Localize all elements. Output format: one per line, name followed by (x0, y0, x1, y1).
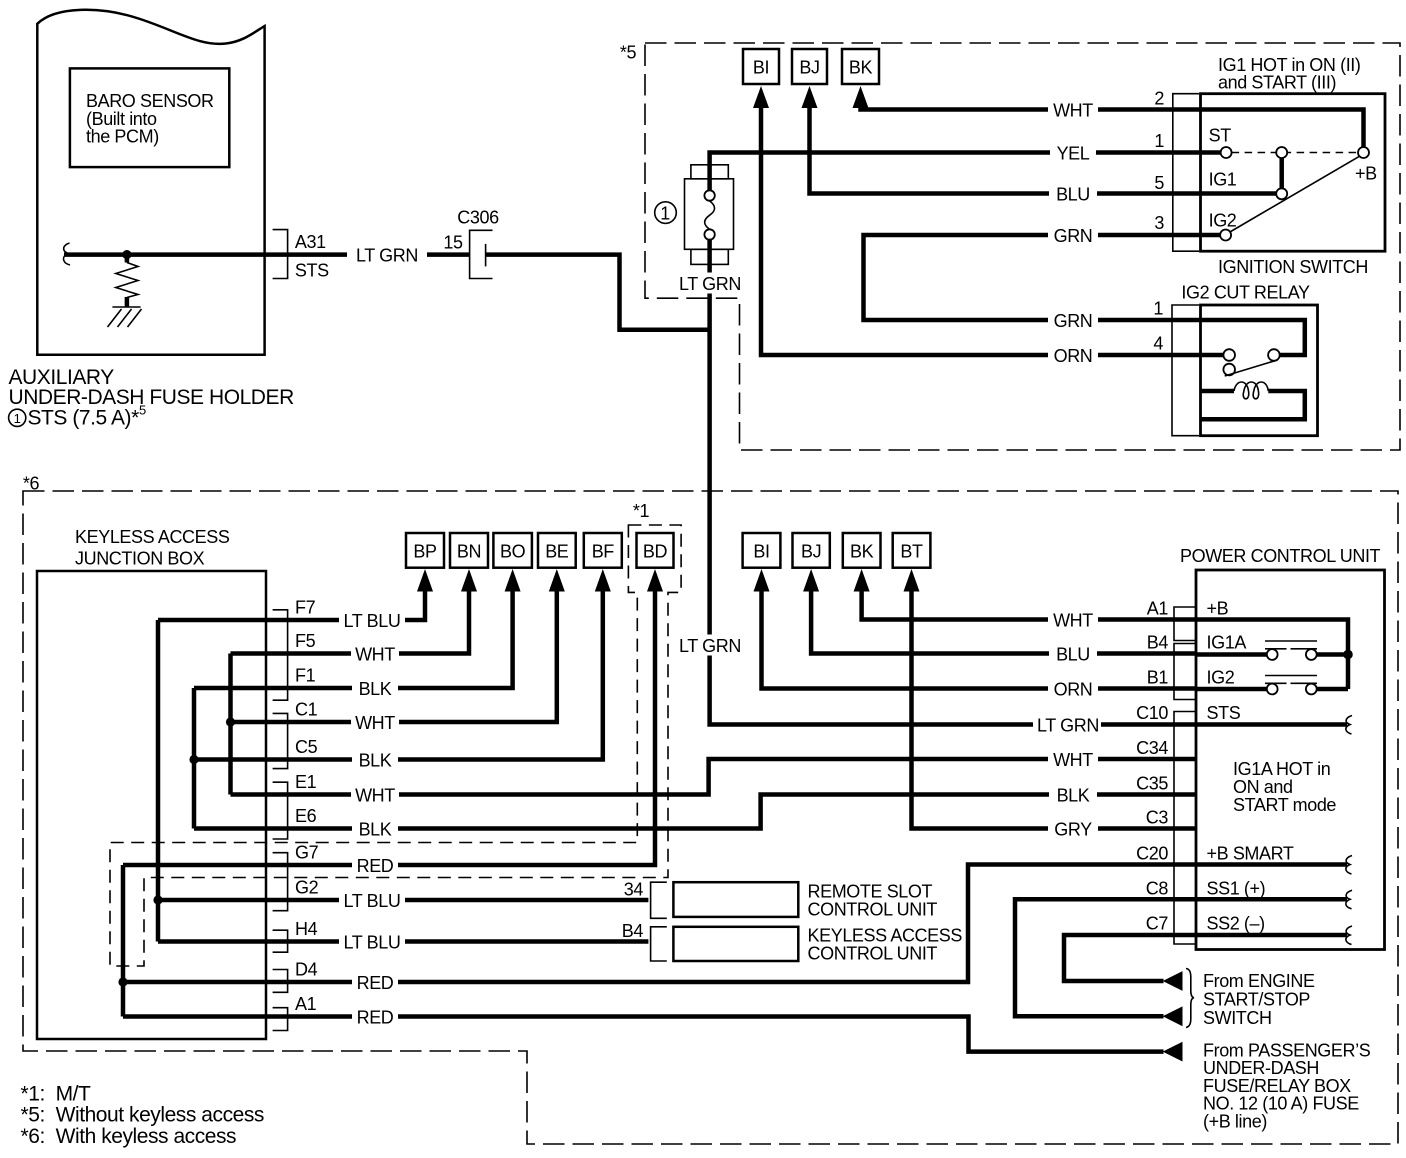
connector bracket PCU group B (1174, 644, 1196, 700)
svg-text:*5: Without keyless access: *5: Without keyless access (21, 1103, 264, 1126)
wire ORN: BI to PCU B1 (762, 592, 1197, 689)
wire LT GRN: fuse bottom down to C10 STS row (710, 240, 1196, 725)
arrow into BP (417, 569, 433, 592)
svg-text:BK: BK (849, 58, 873, 78)
connector C306 (pin 15) (470, 230, 493, 278)
wire A1 RED from passenger's fuse box (123, 1017, 1164, 1052)
svg-text:C34: C34 (1136, 738, 1168, 758)
svg-text:BK: BK (850, 542, 874, 562)
wire H4 LT BLU to keyless access control unit pin B4 (158, 939, 648, 944)
svg-text:KEYLESS ACCESS: KEYLESS ACCESS (808, 926, 963, 946)
connector box BF (584, 533, 622, 568)
svg-text:GRN: GRN (1054, 226, 1093, 246)
svg-text:WHT: WHT (1053, 750, 1093, 770)
wire: LT GRN from C306 down and right to fuse net (486, 255, 710, 330)
title IG1 HOT in ON (II) and START (III) (1218, 55, 1361, 93)
connector bracket at ignition switch (1173, 94, 1199, 252)
svg-text:*6: *6 (23, 474, 40, 494)
BARO SENSOR box U1 (70, 68, 229, 167)
svg-text:ST: ST (1209, 126, 1232, 146)
svg-text:H4: H4 (295, 919, 318, 939)
caption AUXILIARY UNDER-DASH FUSE HOLDER (9, 366, 295, 430)
svg-text:C306: C306 (457, 208, 499, 228)
svg-text:and START (III): and START (III) (1218, 73, 1336, 93)
connector box BD (637, 533, 674, 568)
KEYLESS ACCESS JUNCTION BOX (37, 571, 266, 1039)
svg-text:CONTROL UNIT: CONTROL UNIT (808, 944, 938, 964)
svg-text:LT BLU: LT BLU (344, 611, 401, 631)
connector box BO (493, 533, 532, 568)
connector bracket at IG2 cut relay (1172, 305, 1199, 436)
svg-text:SS2 (–): SS2 (–) (1207, 914, 1265, 934)
svg-text:*5: *5 (620, 43, 637, 63)
connector box BK (lower) (843, 533, 881, 568)
svg-text:+B: +B (1207, 599, 1229, 619)
svg-text:34: 34 (624, 880, 644, 900)
contact IG1 (1276, 188, 1287, 199)
ground (112, 306, 140, 308)
svg-text:BP: BP (413, 542, 437, 562)
arrow into BJ (802, 86, 818, 108)
circled-1 fuse index in caption (9, 409, 26, 426)
connector bracket PCU group A (1174, 607, 1196, 641)
connector bracket remote slot control unit (651, 882, 667, 918)
svg-text:IG1A: IG1A (1207, 633, 1247, 653)
svg-text:BLU: BLU (1056, 185, 1090, 205)
svg-text:WHT: WHT (355, 645, 395, 665)
break curl +B SMART (1346, 856, 1352, 875)
wire IG2 row inside PCU (1196, 687, 1348, 692)
wire C5 BLK to BF (194, 592, 603, 760)
node dot G2 (153, 895, 162, 904)
arrow into BI (753, 86, 769, 108)
arrow into BE (549, 569, 565, 592)
relay contact circles (1268, 349, 1280, 361)
svg-text:the PCM): the PCM) (86, 127, 159, 147)
pin bracket C1/C5 (273, 713, 288, 768)
svg-text:C8: C8 (1146, 879, 1169, 899)
break curl SS2 (1346, 926, 1352, 945)
wire SS2 inside PCU (1196, 933, 1347, 938)
svg-text:BJ: BJ (801, 542, 821, 562)
node: junction dot on sensor wire (122, 250, 131, 259)
IG1A contact bars (1265, 641, 1317, 649)
svg-text:BN: BN (457, 542, 481, 562)
wire SS1 inside PCU (1196, 897, 1347, 902)
svg-text:C35: C35 (1136, 774, 1168, 794)
svg-text:BT: BT (900, 542, 923, 562)
arrow into BF (595, 569, 611, 592)
svg-text:STS (7.5 A)*: STS (7.5 A)* (28, 407, 140, 430)
IG2 cut relay box K1 (1201, 305, 1318, 436)
pin name labels (295, 598, 319, 1015)
svg-text:BLK: BLK (359, 820, 392, 840)
wire F1 BLK to BO (194, 592, 513, 689)
dashed condition outline *1 around BD wire (110, 525, 681, 966)
svg-text:BJ: BJ (799, 58, 819, 78)
resistor (pull-down inside PCM) (125, 255, 130, 263)
svg-text:BLU: BLU (1056, 645, 1090, 665)
wire D4 RED to PCU C20 (+B SMART) (123, 865, 1196, 983)
connector box BN (450, 533, 488, 568)
connector box BI (upper) (743, 49, 779, 84)
svg-text:IG2: IG2 (1207, 668, 1235, 688)
PCU pin labels (1136, 599, 1168, 934)
IG2 contact bars (1265, 676, 1317, 684)
svg-text:CONTROL UNIT: CONTROL UNIT (808, 900, 938, 920)
wire SS2: PCU C7 to engine start/stop switch (1064, 935, 1196, 981)
pin bracket D4 (273, 970, 288, 993)
svg-text:G7: G7 (295, 843, 319, 863)
svg-text:REMOTE SLOT: REMOTE SLOT (808, 882, 933, 902)
fuse STS 7.5A (symbol) (691, 165, 728, 179)
svg-text:LT GRN: LT GRN (1037, 716, 1099, 736)
arrow into BT (904, 569, 920, 592)
svg-text:BLK: BLK (359, 679, 392, 699)
svg-text:+B: +B (1355, 164, 1377, 184)
pin bracket E1/E6 (273, 782, 288, 839)
svg-text:C5: C5 (295, 737, 318, 757)
wire BLU: BJ to PCU B4 (811, 592, 1196, 654)
svg-text:G2: G2 (295, 878, 319, 898)
svg-text:F5: F5 (295, 631, 316, 651)
svg-text:B4: B4 (622, 921, 644, 941)
node dot C5 (189, 755, 198, 764)
svg-text:BD: BD (643, 542, 668, 562)
arrow into BO (505, 569, 521, 592)
wire IG1A row inside PCU (1196, 652, 1348, 657)
contact ST (1221, 147, 1232, 158)
wire ORN: BI to relay pin 4 (761, 106, 1223, 355)
wire +B inside PCU (1196, 620, 1348, 690)
svg-text:START/STOP: START/STOP (1203, 990, 1310, 1010)
ignition switch box (1201, 94, 1386, 252)
svg-text:STS: STS (1207, 703, 1241, 723)
wire E6 BLK to PCU C35 (194, 795, 1196, 829)
svg-text:C20: C20 (1136, 844, 1168, 864)
KEYLESS ACCESS CONTROL UNIT box (673, 927, 798, 961)
bus LT BLU (F7-G2-H4) (156, 620, 161, 942)
dashed condition box *5 (645, 43, 1400, 450)
dashed condition box *6 (23, 491, 1398, 1144)
pin bracket F7/F5/F1 (273, 610, 288, 700)
wire +B SMART inside PCU (1196, 862, 1347, 867)
svg-text:BI: BI (753, 58, 769, 78)
svg-text:BLK: BLK (359, 751, 392, 771)
svg-text:1: 1 (1154, 131, 1164, 151)
wire F7 LT BLU to BP (158, 592, 425, 621)
wire SS1: PCU C8 to engine start/stop switch (1015, 899, 1196, 1016)
svg-text:*6: With keyless access: *6: With keyless access (21, 1125, 237, 1148)
wire-break curl at left end (64, 243, 70, 265)
svg-text:BI: BI (753, 542, 769, 562)
wire G7 RED to BD (123, 592, 655, 866)
IG2 contact circles (1267, 684, 1278, 695)
svg-text:E6: E6 (295, 806, 317, 826)
svg-text:IG2 CUT RELAY: IG2 CUT RELAY (1181, 283, 1310, 303)
svg-text:WHT: WHT (1053, 101, 1093, 121)
wire GRY: BT to PCU C3 (912, 592, 1197, 829)
wire F5 WHT to BN (231, 592, 470, 654)
ignition switch internals (1232, 152, 1358, 154)
wire: LT GRN from A31 to C306 (288, 252, 470, 257)
IG1A contact circles (1267, 649, 1278, 660)
wire: BARO sensor output to pin A31 (64, 252, 288, 257)
svg-text:SWITCH: SWITCH (1203, 1008, 1272, 1028)
pin bracket G7/G2 (273, 853, 288, 911)
svg-text:WHT: WHT (1053, 611, 1093, 631)
svg-text:5: 5 (1154, 173, 1164, 193)
svg-text:YEL: YEL (1057, 144, 1090, 164)
svg-text:A1: A1 (295, 994, 317, 1014)
svg-text:D4: D4 (295, 960, 318, 980)
circled-1 fuse callout (655, 202, 677, 224)
svg-text:A1: A1 (1147, 599, 1169, 619)
contact mid (1276, 147, 1287, 158)
svg-text:LT BLU: LT BLU (344, 933, 401, 953)
svg-text:POWER CONTROL UNIT: POWER CONTROL UNIT (1180, 546, 1381, 566)
pin bracket A1 (273, 1008, 288, 1031)
svg-text:C3: C3 (1146, 808, 1169, 828)
svg-text:C7: C7 (1146, 914, 1169, 934)
svg-text:LT GRN: LT GRN (679, 274, 741, 294)
svg-text:GRN: GRN (1054, 311, 1093, 331)
connector box BI (lower) (743, 533, 781, 568)
connector box BT (893, 533, 931, 568)
wire STS inside PCU (1196, 722, 1347, 727)
wire WHT: BK to PCU A1 (862, 592, 1196, 620)
node dot D4 (118, 977, 127, 986)
svg-text:15: 15 (443, 233, 463, 253)
svg-text:ON and: ON and (1233, 777, 1293, 797)
connector pin A31 (STS) bracket (273, 230, 288, 279)
svg-text:SS1 (+): SS1 (+) (1207, 879, 1266, 899)
break curl STS (1346, 716, 1352, 735)
svg-text:B4: B4 (1147, 633, 1169, 653)
break curl SS1 (1346, 890, 1352, 909)
arrow from passenger's fuse box (+B line) (1163, 1042, 1183, 1062)
svg-text:GRY: GRY (1054, 820, 1092, 840)
svg-text:LT GRN: LT GRN (356, 246, 418, 266)
footnotes (21, 1083, 264, 1149)
wire WHT: BK to ignition switch pin 2 (861, 106, 1364, 147)
arrow into BK lower (854, 569, 870, 592)
relay coil (1201, 389, 1235, 394)
svg-text:BF: BF (592, 542, 615, 562)
svg-text:5: 5 (139, 403, 146, 418)
connector bracket keyless access control unit (651, 927, 667, 961)
wire C1 WHT to BE (231, 592, 557, 723)
PCU internal pin names (1207, 599, 1337, 934)
connector box BJ (upper) (792, 49, 827, 84)
svg-text:4: 4 (1153, 334, 1163, 354)
relay armature (1225, 360, 1278, 376)
svg-text:RED: RED (357, 856, 394, 876)
svg-text:BLK: BLK (1057, 786, 1090, 806)
svg-text:IG1A HOT in: IG1A HOT in (1233, 759, 1330, 779)
svg-text:BO: BO (500, 542, 526, 562)
svg-text:1: 1 (660, 204, 670, 224)
wire E1 WHT to PCU C34 (231, 759, 1197, 795)
svg-text:IGNITION SWITCH: IGNITION SWITCH (1218, 257, 1368, 277)
svg-text:*1: M/T: *1: M/T (21, 1083, 92, 1106)
svg-text:F1: F1 (295, 666, 316, 686)
arrow into BD (647, 569, 663, 592)
wire YEL: fuse to ignition switch pin 1 (710, 153, 1221, 191)
wire GRN: ignition switch pin 3 down to relay pin 1 (864, 235, 1305, 355)
svg-text:1: 1 (1153, 299, 1163, 319)
connector bracket PCU group C (1174, 712, 1196, 945)
svg-text:RED: RED (357, 1008, 394, 1028)
pin numbers ignition switch (1153, 89, 1164, 354)
REMOTE SLOT CONTROL UNIT box (673, 882, 798, 917)
node dot C1 (226, 717, 235, 726)
svg-text:JUNCTION BOX: JUNCTION BOX (75, 549, 205, 569)
svg-text:WHT: WHT (355, 713, 395, 733)
svg-text:ORN: ORN (1054, 346, 1093, 366)
connector box BK (upper) (842, 49, 879, 84)
arrow from engine start/stop switch (SS1) (1163, 1006, 1183, 1026)
svg-text:WHT: WHT (355, 786, 395, 806)
svg-text:BE: BE (545, 542, 569, 562)
arrow from engine start/stop switch (SS2) (1163, 971, 1183, 991)
svg-text:IG2: IG2 (1209, 211, 1237, 231)
POWER CONTROL UNIT box (1196, 570, 1385, 950)
arrow into BI lower (754, 569, 770, 592)
arrow into BJ lower (803, 569, 819, 592)
svg-text:(+B line): (+B line) (1203, 1111, 1267, 1131)
svg-text:3: 3 (1154, 213, 1164, 233)
connector box BJ (lower) (793, 533, 830, 568)
PCM outer box (torn-edge enclosure) (37, 10, 264, 355)
arrow into BK (853, 86, 869, 108)
connector box BP (406, 533, 444, 568)
arrow into BN (461, 569, 477, 592)
svg-text:KEYLESS ACCESS: KEYLESS ACCESS (75, 527, 230, 547)
svg-text:LT GRN: LT GRN (679, 636, 741, 656)
bus BLK (F1-C5-E6) (192, 688, 197, 829)
svg-text:*1: *1 (633, 501, 650, 521)
brace for engine start/stop arrows (1186, 969, 1194, 1028)
svg-text:A31: A31 (295, 232, 326, 252)
svg-text:1: 1 (14, 411, 21, 426)
svg-text:2: 2 (1154, 89, 1164, 109)
svg-text:START mode: START mode (1233, 795, 1336, 815)
svg-text:RED: RED (357, 973, 394, 993)
svg-text:C10: C10 (1136, 703, 1168, 723)
pin bracket H4 (273, 930, 288, 952)
wire G2 LT BLU to remote slot control unit pin 34 (158, 898, 648, 903)
svg-text:+B SMART: +B SMART (1207, 844, 1294, 864)
svg-text:IG1: IG1 (1209, 170, 1237, 190)
svg-text:E1: E1 (295, 772, 317, 792)
node dot +B/IG1A (1343, 650, 1353, 660)
contact IG2 (1220, 230, 1231, 241)
wire BLU: BJ to ignition switch pin 5 (810, 106, 1277, 194)
svg-text:ORN: ORN (1054, 680, 1093, 700)
svg-text:F7: F7 (295, 598, 316, 618)
svg-text:B1: B1 (1147, 668, 1169, 688)
svg-text:From ENGINE: From ENGINE (1203, 971, 1315, 991)
svg-text:STS: STS (295, 261, 329, 281)
svg-text:BARO SENSOR: BARO SENSOR (86, 91, 214, 111)
contact +B (1358, 147, 1369, 158)
svg-text:C1: C1 (295, 700, 318, 720)
bus WHT (F5-C1-E1) (228, 654, 233, 795)
connector box BE (538, 533, 576, 568)
svg-text:LT BLU: LT BLU (344, 891, 401, 911)
bus RED (G7-D4-A1) (121, 865, 126, 1017)
